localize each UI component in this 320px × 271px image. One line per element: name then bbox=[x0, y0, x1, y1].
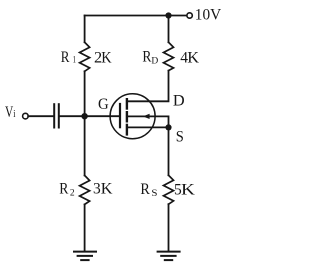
label 2K bbox=[94, 47, 112, 66]
label 3K bbox=[93, 179, 113, 198]
svg-text:R: R bbox=[59, 180, 69, 197]
wire substrate line with bend to source node bbox=[127, 116, 168, 127]
node source junction bbox=[165, 124, 171, 130]
wire capacitor to gate bar bbox=[60, 115, 119, 117]
wire source line bbox=[127, 126, 168, 128]
ground (left) bbox=[74, 252, 96, 261]
svg-text:K: K bbox=[101, 179, 113, 198]
svg-text:K: K bbox=[181, 180, 195, 198]
svg-text:1: 1 bbox=[73, 55, 76, 65]
resistor RS bbox=[164, 175, 174, 204]
label RD bbox=[142, 49, 158, 67]
wire left vertical: top rail to R1 bbox=[84, 16, 86, 43]
capacitor C1 bbox=[54, 104, 59, 127]
svg-text:S: S bbox=[176, 128, 184, 146]
transistor Q1 substrate arrow bbox=[143, 114, 150, 119]
label RS bbox=[140, 180, 157, 199]
label 4K bbox=[180, 47, 199, 66]
wire R1 bottom to gate node bbox=[84, 71, 86, 116]
transistor Q1 channel segment source-side bbox=[126, 125, 128, 134]
svg-text:D: D bbox=[173, 90, 185, 109]
resistor RD bbox=[164, 42, 174, 70]
ground (right) bbox=[158, 252, 180, 261]
transistor Q1 MOSFET body circle bbox=[110, 94, 155, 139]
label Vi bbox=[5, 103, 16, 122]
svg-text:R: R bbox=[142, 49, 151, 66]
svg-text:V: V bbox=[5, 103, 13, 122]
supply terminal circle bbox=[187, 13, 192, 18]
wire R2 bottom to ground bbox=[84, 204, 86, 251]
svg-text:K: K bbox=[187, 47, 199, 66]
node gate junction bbox=[81, 113, 87, 119]
svg-text:R: R bbox=[140, 180, 150, 198]
svg-text:2: 2 bbox=[70, 189, 75, 199]
label R2 bbox=[59, 180, 75, 198]
wire top rail from left branch to supply terminal bbox=[85, 15, 187, 17]
transistor Q1 gate bar bbox=[119, 104, 121, 127]
svg-text:G: G bbox=[98, 95, 109, 113]
wire gate node to R2 bbox=[84, 116, 86, 175]
svg-text:10V: 10V bbox=[195, 6, 222, 24]
label R1 bbox=[61, 49, 76, 67]
node top junction bbox=[165, 12, 171, 18]
svg-text:D: D bbox=[151, 57, 158, 67]
svg-text:R: R bbox=[61, 49, 70, 67]
transistor Q1 channel segment drain-side bbox=[126, 99, 128, 108]
resistor R1 bbox=[80, 42, 90, 71]
svg-text:K: K bbox=[101, 48, 111, 66]
wire RD top to supply rail bbox=[168, 16, 170, 43]
resistor R2 bbox=[80, 175, 90, 204]
svg-text:3: 3 bbox=[93, 180, 101, 197]
transistor Q1 channel segment body bbox=[126, 112, 128, 121]
svg-text:S: S bbox=[151, 188, 157, 198]
wire input terminal to capacitor bbox=[28, 115, 53, 117]
input terminal Vi bbox=[23, 113, 29, 119]
wire source node to RS bbox=[168, 127, 170, 175]
wire drain line and up to RD bbox=[127, 71, 168, 102]
label 5K bbox=[174, 180, 195, 199]
wire RS bottom to ground bbox=[168, 204, 170, 251]
